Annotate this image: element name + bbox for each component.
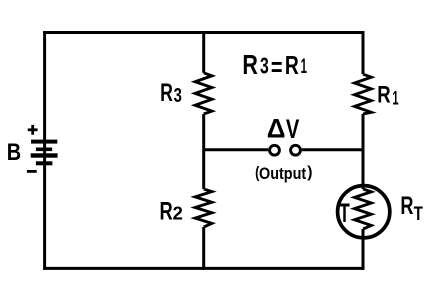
svg-text:R: R [400,191,413,220]
svg-text:B: B [7,138,21,165]
svg-text:1: 1 [301,54,307,78]
svg-text:R: R [377,81,391,108]
svg-text:R: R [160,78,173,107]
svg-text:R: R [160,197,173,225]
svg-text:): ) [307,164,312,181]
svg-text:R: R [242,51,258,81]
svg-text:T: T [339,197,350,228]
svg-text:3: 3 [260,54,269,80]
svg-text:=: = [271,52,283,81]
svg-text:1: 1 [392,88,398,109]
svg-text:2: 2 [172,203,182,224]
svg-text:T: T [414,202,423,224]
svg-text:Δ: Δ [267,113,286,143]
svg-text:3: 3 [174,84,182,107]
svg-text:R: R [285,50,299,80]
svg-text:Output: Output [259,165,307,183]
svg-text:V: V [286,115,300,144]
